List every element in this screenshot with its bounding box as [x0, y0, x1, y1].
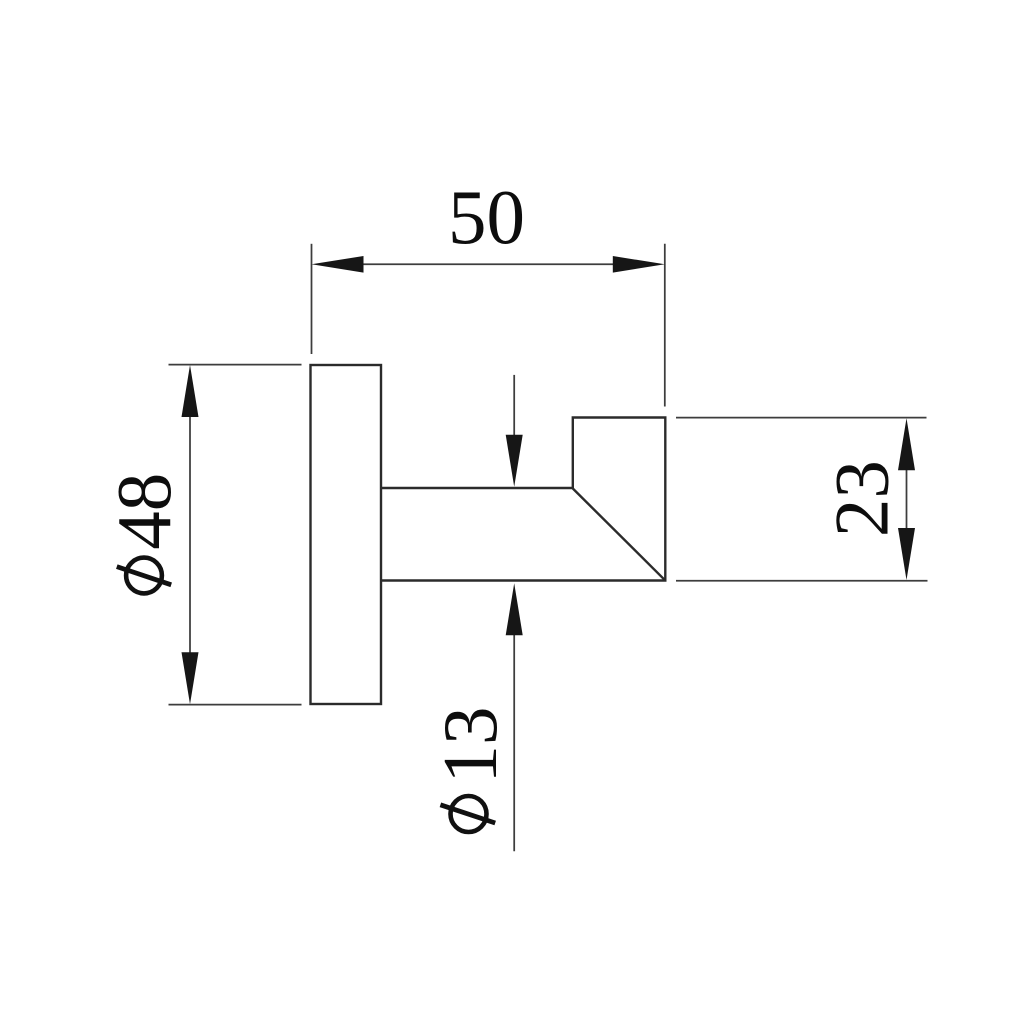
svg-text:48: 48 [101, 473, 187, 550]
svg-text:23: 23 [819, 460, 905, 537]
svg-text:50: 50 [448, 174, 525, 260]
svg-text:13: 13 [427, 707, 513, 784]
